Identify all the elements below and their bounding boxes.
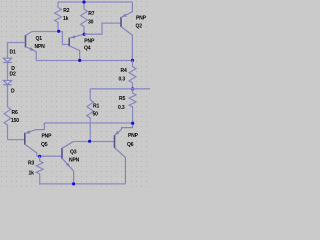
node junction J1 R2 bottom	[57, 30, 60, 33]
svg-text:50: 50	[93, 111, 99, 117]
svg-text:Q2: Q2	[136, 23, 143, 29]
svg-text:PNP: PNP	[128, 133, 139, 139]
resistor R6	[7, 85, 9, 107]
node junction Q4 collector rail	[78, 59, 81, 62]
node junction R7 top rail	[82, 0, 85, 3]
svg-text:R2: R2	[63, 8, 69, 14]
svg-text:Q3: Q3	[70, 149, 77, 155]
svg-text:D1: D1	[10, 49, 16, 55]
resistor R4	[129, 60, 136, 89]
svg-text:D2: D2	[10, 72, 16, 78]
svg-text:D: D	[11, 88, 15, 94]
transistor Q3	[61, 148, 63, 159]
svg-text:PNP: PNP	[84, 38, 95, 44]
svg-text:R5: R5	[119, 96, 125, 102]
svg-text:R4: R4	[121, 68, 127, 74]
node junction R5 bottom rail123	[131, 122, 134, 125]
diode D1	[7, 43, 9, 59]
resistor R3	[36, 156, 43, 184]
transistor Q1	[25, 35, 27, 48]
svg-text:150: 150	[11, 118, 19, 124]
wire top supply rail	[58, 1, 132, 3]
svg-text:Q6: Q6	[127, 142, 134, 148]
svg-text:R1: R1	[93, 103, 99, 109]
wire Q3 collector to Q6 base	[73, 141, 114, 143]
wire rail y123	[44, 122, 132, 124]
wire bottom rail	[40, 183, 126, 185]
svg-text:PNP: PNP	[136, 15, 147, 21]
svg-text:Q1: Q1	[36, 36, 43, 42]
svg-text:30: 30	[88, 19, 94, 25]
svg-text:Q4: Q4	[84, 45, 91, 51]
node junction J2 R7 bottom	[83, 33, 86, 36]
node junction R3 top	[38, 155, 41, 158]
wire output rail y89	[90, 88, 150, 90]
transistor Q2	[120, 17, 122, 27]
wire R6 to Q5 base	[8, 139, 25, 141]
transistor Q5	[24, 133, 26, 145]
resistor R2	[55, 2, 62, 31]
wire Q5 collector to Q3 base	[37, 155, 62, 157]
node junction R1 bottom	[88, 140, 91, 143]
node junction R4 R5	[131, 87, 134, 90]
svg-text:0.3: 0.3	[119, 76, 126, 82]
svg-text:0.3: 0.3	[118, 105, 125, 111]
svg-text:R7: R7	[88, 11, 94, 17]
svg-text:NPN: NPN	[35, 44, 46, 50]
wire node A collector rail y31	[32, 32, 69, 45]
svg-text:1k: 1k	[29, 170, 35, 176]
wire mid rail y60	[36, 60, 132, 62]
wire J2 to Q2 base	[84, 23, 121, 34]
transistor Q4	[68, 38, 70, 47]
svg-text:R6: R6	[12, 110, 18, 116]
node junction Q3 emitter bottom rail	[72, 182, 75, 185]
svg-text:Q5: Q5	[41, 142, 48, 148]
svg-text:1k: 1k	[63, 16, 69, 22]
svg-text:NPN: NPN	[69, 157, 80, 163]
diode D2	[7, 63, 9, 81]
transistor Q6	[114, 135, 116, 148]
resistor R7	[81, 2, 88, 34]
resistor R1	[87, 89, 94, 141]
svg-text:R3: R3	[28, 160, 34, 166]
svg-text:PNP: PNP	[42, 133, 53, 139]
node junction Q2 collector rail	[131, 59, 134, 62]
resistor R5	[129, 89, 136, 123]
